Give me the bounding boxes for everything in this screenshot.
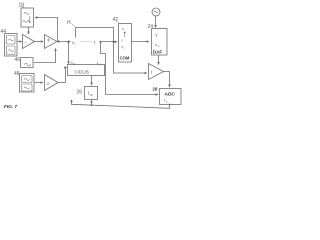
comparator COM box — [119, 24, 132, 63]
branch: node down to amp A4 input — [114, 42, 145, 73]
svg-text:24: 24 — [148, 24, 154, 30]
wire C/DUB bottom -> M box top — [91, 76, 93, 83]
svg-text:s: s — [158, 44, 160, 48]
svg-text:FIG. 7: FIG. 7 — [4, 104, 17, 109]
wire DAF -> amp A4 control — [158, 55, 160, 62]
junction node loop/amp feedback — [112, 41, 114, 43]
box 44 (input filter block, left) — [5, 34, 18, 57]
box 18 (AGC control block, top-left) — [21, 8, 34, 27]
svg-text:26: 26 — [77, 90, 83, 96]
wire box48 -> amp A3 — [34, 82, 41, 84]
long bottom wire — [72, 104, 170, 108]
junction node to C/DUB branch — [67, 41, 69, 43]
box 46 (control for A2) — [21, 58, 34, 68]
ADC box — [160, 89, 182, 105]
op-amp A4 — [149, 64, 164, 80]
op-amp A2 — [45, 35, 58, 49]
arrow into COM box — [115, 41, 118, 44]
svg-text:f: f — [122, 39, 123, 43]
svg-text:28: 28 — [153, 87, 158, 92]
faint wire segment — [80, 41, 92, 43]
ADC clock output bottom, long return wire — [169, 104, 171, 106]
svg-text:x̂: x̂ — [93, 40, 95, 45]
C/DUB box — [68, 65, 105, 76]
svg-text:44: 44 — [1, 29, 7, 35]
branch: node to ADC input (jog) — [101, 42, 156, 95]
svg-text:x: x — [155, 42, 157, 47]
svg-text:18: 18 — [19, 3, 25, 9]
branch to M box bottom — [91, 104, 93, 106]
branch: node to C/DUB top — [68, 42, 70, 62]
DAF box — [152, 29, 168, 56]
svg-text:r: r — [124, 46, 125, 50]
svg-text:48: 48 — [14, 71, 20, 77]
wire COM -> DAF — [132, 41, 147, 43]
arrow before node label xr — [68, 40, 71, 43]
op-amp A3 — [45, 75, 59, 91]
svg-text:y: y — [156, 32, 158, 37]
stub arrow up at left end — [71, 102, 73, 104]
op-amp A1 — [23, 35, 35, 49]
wire A3 out up into C/DUB left — [58, 68, 66, 83]
wire A4 out -> ADC top — [164, 72, 170, 85]
svg-text:H: H — [67, 20, 71, 26]
label 18 — [22, 7, 25, 9]
box 48 (lower source block) — [20, 74, 35, 93]
svg-text:x: x — [122, 26, 124, 31]
svg-text:C/DUB: C/DUB — [75, 70, 89, 75]
wire source -> DAF top — [155, 16, 157, 25]
M box (divider) — [85, 87, 98, 100]
wire box18 output down into amp A1 — [28, 27, 30, 32]
wire box46 -> A2 bottom — [34, 51, 56, 63]
wire feedback into box 18 right side — [38, 17, 58, 19]
wire A1 -> A2 — [35, 41, 41, 43]
main wire continues — [101, 41, 115, 43]
oscillator source (circle) — [152, 8, 160, 16]
loop wire H (bypass over label) — [76, 28, 114, 42]
node after A2 — [58, 40, 60, 42]
wire box44 -> amp A1 — [17, 41, 20, 43]
wire vertical from node to box18 — [57, 18, 59, 42]
main wire after A2 — [57, 41, 69, 43]
svg-text:ADC: ADC — [165, 91, 176, 97]
svg-text:s: s — [166, 100, 168, 104]
svg-text:f: f — [151, 70, 153, 75]
svg-text:+: + — [25, 40, 28, 45]
svg-text:r: r — [75, 42, 77, 46]
junction node to ADC branch — [99, 41, 101, 43]
svg-text:COM: COM — [120, 56, 130, 61]
svg-text:x: x — [122, 45, 124, 49]
svg-text:DAF: DAF — [153, 50, 163, 55]
svg-text:m: m — [90, 93, 93, 97]
svg-text:46: 46 — [15, 57, 21, 63]
svg-text:x: x — [47, 81, 50, 86]
svg-text:d: d — [73, 62, 75, 66]
